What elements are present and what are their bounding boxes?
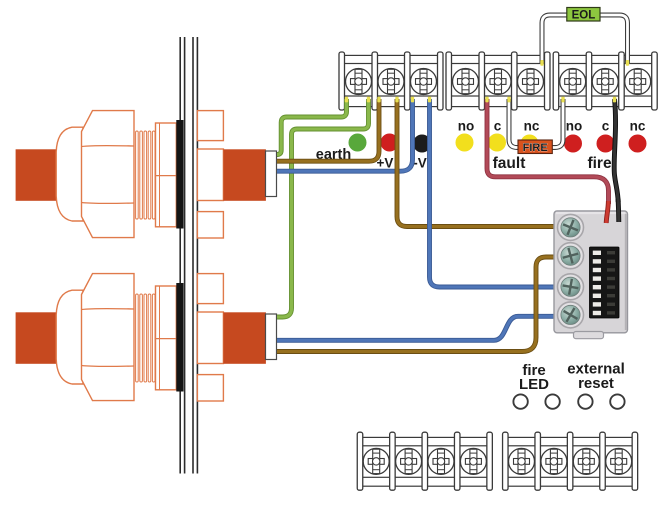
wire blue -V feed to module terminal 3 (430, 99, 561, 287)
svg-text:nc: nc (524, 119, 540, 134)
svg-text:reset: reset (578, 375, 614, 392)
wire brown from bottom cable to module terminal 2 (277, 257, 560, 352)
svg-text:FIRE: FIRE (523, 142, 548, 154)
wire blue -V from top cable (277, 99, 413, 171)
relay module U1 body (554, 211, 628, 333)
LED -V (black) (413, 135, 431, 153)
label FIRE (jumper tag) (518, 140, 552, 154)
panel (mounting plate, edge view) (180, 37, 197, 474)
svg-text:fire: fire (587, 155, 612, 172)
hole fire LED 2 (545, 394, 559, 408)
svg-text:no: no (566, 119, 583, 134)
svg-text:c: c (602, 119, 610, 134)
svg-text:nc: nc (630, 119, 646, 134)
svg-text:c: c (494, 119, 502, 134)
wire green earth from bottom cable (277, 99, 369, 317)
hole external reset 2 (610, 394, 624, 408)
LED earth (green) (349, 134, 367, 152)
hole external reset 1 (578, 394, 592, 408)
svg-text:LED: LED (519, 376, 549, 393)
module screw terminal 2 (558, 243, 584, 269)
LED fault nc (yellow) (521, 135, 539, 153)
LED +V (red) (381, 134, 399, 152)
LED fault c (yellow) (488, 134, 506, 152)
cable gland G2 with cable (bottom) (16, 274, 277, 401)
LED fire c (red) (597, 135, 615, 153)
svg-text:fault: fault (493, 155, 526, 172)
hole fire LED 1 (513, 394, 527, 408)
resistor EOL loop wire (542, 15, 628, 64)
terminal block TB3 (fire relay no/c/nc) (553, 52, 657, 110)
module screw terminal 4 (558, 302, 584, 328)
module screw terminal 3 (558, 274, 584, 300)
terminal block TB5 (bottom right, 4-way) (503, 432, 638, 490)
terminal block TB2 (fault relay no/c/nc) (446, 52, 550, 110)
wire brown +V feed to module terminal 1 (397, 99, 560, 227)
svg-text:EOL: EOL (572, 10, 596, 22)
LED fire no (red) (564, 135, 582, 153)
terminal block TB4 (bottom left, 4-way) (357, 432, 492, 490)
wire crimson fault-c to module (487, 99, 609, 204)
svg-text:-V: -V (413, 156, 427, 171)
svg-text:no: no (458, 119, 475, 134)
DIP switch S1 (590, 247, 620, 318)
jumper loop fault-c to fire-no (509, 99, 563, 148)
resistor EOL body (567, 8, 600, 22)
wire red tail into module (606, 201, 608, 223)
terminal block TB1 (earth / +V / -V) (339, 52, 443, 110)
wire black fire-c to module (614, 99, 618, 202)
relay module bottom tab (574, 332, 604, 339)
LED fault no (yellow) (456, 134, 474, 152)
wire blue from bottom cable to module terminal 4 (277, 316, 560, 340)
module screw terminal 1 (558, 214, 584, 240)
wire ferrule tips (yellow) (345, 60, 629, 102)
wire green earth from top cable (277, 99, 347, 155)
wire black tail into module (616, 199, 622, 222)
LED fire nc (red) (629, 135, 647, 153)
cable gland G1 with cable (top) (16, 111, 277, 238)
wire brown +V from top cable (277, 99, 379, 161)
